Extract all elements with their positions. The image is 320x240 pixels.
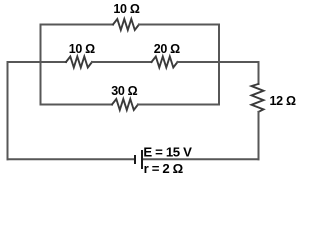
svg-text:E = 15 V: E = 15 V: [143, 145, 192, 160]
wire: bottom right segment from battery: [142, 158, 259, 160]
resistor 10Ω top branch: [113, 19, 139, 30]
wire: middle row right segment: [178, 61, 259, 63]
resistor 20Ω middle branch: [152, 57, 178, 68]
wire: right vertical lower lead: [258, 112, 260, 159]
wire: box top edge left lead: [41, 24, 114, 26]
resistor 30Ω bottom branch of box: [112, 99, 138, 110]
wire: left outer vertical: [7, 62, 9, 159]
wire: right vertical upper lead: [258, 62, 260, 84]
wire: box right edge: [218, 25, 220, 105]
svg-text:10 Ω: 10 Ω: [113, 2, 139, 16]
wire: box left edge: [40, 25, 42, 105]
wire: middle row left segment: [8, 61, 67, 63]
svg-text:30 Ω: 30 Ω: [111, 84, 137, 98]
svg-text:10 Ω: 10 Ω: [69, 42, 95, 56]
svg-text:12 Ω: 12 Ω: [270, 94, 296, 108]
wire: box top edge right lead: [139, 24, 219, 26]
resistor 12Ω right branch: [252, 84, 264, 112]
resistor 10Ω middle branch: [66, 57, 92, 68]
wire: middle row center segment: [92, 61, 152, 63]
svg-text:20 Ω: 20 Ω: [154, 42, 180, 56]
wire: box bottom edge left lead: [41, 104, 113, 106]
battery negative plate (short): [134, 155, 136, 164]
wire: box bottom edge right lead: [138, 104, 219, 106]
wire: bottom left segment to battery: [8, 158, 136, 160]
battery positive plate (long): [141, 150, 143, 169]
svg-text:r = 2 Ω: r = 2 Ω: [144, 161, 184, 176]
